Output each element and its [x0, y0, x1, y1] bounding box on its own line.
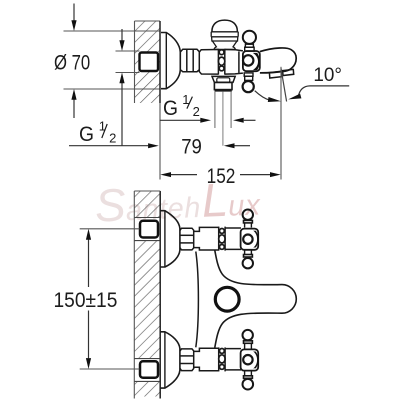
svg-text:79: 79	[181, 136, 202, 159]
svg-text:150±15: 150±15	[54, 289, 118, 312]
svg-text:10°: 10°	[313, 64, 342, 86]
svg-text:G: G	[79, 123, 94, 146]
svg-text:152: 152	[207, 165, 236, 188]
svg-text:2: 2	[193, 104, 200, 119]
svg-text:2: 2	[109, 130, 116, 145]
svg-text:Ø 70: Ø 70	[54, 52, 90, 75]
svg-text:G: G	[163, 97, 178, 120]
